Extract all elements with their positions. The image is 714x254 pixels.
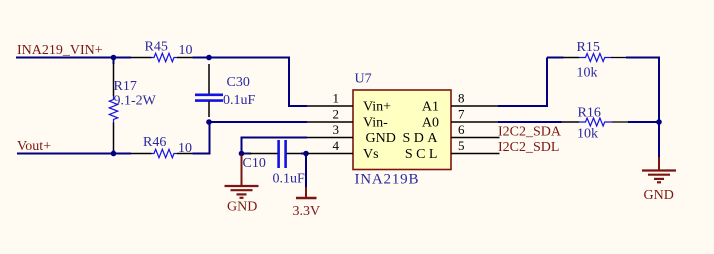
- capacitor C10: [250, 140, 302, 168]
- label C10: [243, 156, 266, 171]
- label GND (left): [227, 200, 257, 215]
- label GND (right): [644, 188, 674, 203]
- node J7 junction: [656, 119, 662, 125]
- svg-text:R17: R17: [114, 79, 137, 94]
- svg-text:R15: R15: [577, 40, 600, 55]
- wire J2 to pin1 corner: [209, 58, 307, 107]
- svg-text:Vin+: Vin+: [363, 100, 391, 115]
- wire J7 down to GND: [658, 122, 660, 157]
- net label Vout+: [17, 139, 51, 154]
- net label I2C2_SDA: [498, 125, 562, 140]
- svg-text:0.1uF: 0.1uF: [223, 93, 256, 108]
- net label INA219_VIN+: [17, 43, 103, 58]
- wire Vout+ horizontal: [17, 153, 131, 155]
- label 10 (R46 value): [178, 141, 192, 156]
- svg-text:0.1uF: 0.1uF: [273, 172, 306, 187]
- wire R45 to J2: [193, 57, 210, 59]
- pin name A0: [422, 116, 439, 131]
- pin 8 stub: [451, 105, 498, 107]
- label 0.1uF (C30 value): [223, 93, 256, 108]
- resistor R45: [131, 53, 193, 61]
- pin name GND: [366, 131, 396, 146]
- svg-text:C30: C30: [227, 75, 250, 90]
- label INA219B: [355, 172, 420, 188]
- wire pin8 to R15 riser: [498, 58, 547, 107]
- resistor R17: [109, 63, 117, 151]
- svg-text:U7: U7: [355, 72, 372, 87]
- svg-text:10: 10: [179, 43, 193, 58]
- wire J5 to C10: [242, 153, 252, 155]
- label 3.3V: [293, 204, 321, 219]
- wire J3 to pin2: [209, 121, 307, 123]
- svg-text:Vs: Vs: [363, 147, 379, 162]
- wire C10 to J6: [301, 153, 306, 155]
- svg-text:Vin-: Vin-: [363, 116, 388, 131]
- wire pin3 to GND corner: [242, 138, 308, 154]
- svg-text:I2C2_SDA: I2C2_SDA: [498, 125, 562, 140]
- node J6 junction (Vs/3.3V): [303, 151, 309, 157]
- svg-text:SDA: SDA: [402, 131, 441, 146]
- wire R17 down to J4: [113, 150, 115, 154]
- wire R46 to riser: [193, 122, 210, 154]
- pin 2 stub: [307, 121, 353, 123]
- wire R15 row left: [547, 57, 564, 59]
- svg-text:I2C2_SDL: I2C2_SDL: [498, 140, 559, 155]
- wire R16 to J7: [628, 121, 659, 123]
- svg-text:SCL: SCL: [405, 147, 441, 162]
- pin name Vin+: [363, 100, 391, 115]
- pin 4 stub: [307, 153, 353, 155]
- pin name Vin-: [363, 116, 388, 131]
- resistor R46: [131, 149, 193, 157]
- wire J6 down to 3.3V: [305, 154, 307, 188]
- power port GND (right): [642, 157, 676, 182]
- svg-text:9.1-2W: 9.1-2W: [114, 94, 157, 109]
- pin 7 stub: [451, 121, 498, 123]
- wire pin7 to R16: [498, 121, 562, 123]
- label R16: [578, 106, 601, 121]
- pin 1 number: [333, 91, 340, 106]
- node J1 junction: [111, 55, 117, 61]
- capacitor C30: [195, 64, 223, 117]
- op-amp U7 body (INA219B): [353, 90, 451, 170]
- svg-text:1: 1: [333, 91, 340, 106]
- label 10 (R45 value): [179, 43, 193, 58]
- svg-text:GND: GND: [366, 131, 396, 146]
- svg-text:8: 8: [458, 91, 465, 106]
- pin 6 number: [458, 122, 465, 137]
- svg-text:A0: A0: [422, 116, 439, 131]
- svg-text:C10: C10: [243, 156, 266, 171]
- pin 6 stub: [451, 137, 500, 139]
- pin 1 stub: [307, 105, 353, 107]
- net label I2C2_SDL: [498, 140, 559, 155]
- label 10k (R16 value): [577, 127, 598, 142]
- svg-text:INA219B: INA219B: [355, 172, 420, 188]
- svg-text:INA219_VIN+: INA219_VIN+: [17, 43, 103, 58]
- pin name Vs: [363, 147, 379, 162]
- svg-text:5: 5: [458, 138, 465, 153]
- wire R15 to right riser: [626, 58, 659, 123]
- label 10k (R15 value): [577, 66, 598, 81]
- svg-text:4: 4: [333, 138, 340, 153]
- svg-text:R16: R16: [578, 106, 601, 121]
- pin name SDA: [402, 131, 441, 146]
- label R15: [577, 40, 600, 55]
- svg-text:R46: R46: [143, 135, 166, 150]
- wire VIN+ horizontal top-left: [16, 57, 131, 59]
- svg-text:10: 10: [178, 141, 192, 156]
- svg-text:2: 2: [333, 107, 340, 122]
- power port 3.3V: [296, 187, 317, 198]
- resistor R16: [562, 118, 629, 126]
- svg-text:3: 3: [333, 122, 340, 137]
- pin 8 number: [458, 91, 465, 106]
- pin name SCL: [405, 147, 441, 162]
- svg-text:R45: R45: [145, 40, 168, 55]
- label C30: [227, 75, 250, 90]
- svg-text:10k: 10k: [577, 66, 598, 81]
- node J4 junction: [111, 151, 117, 157]
- node J5 junction (C10/GND): [239, 151, 245, 157]
- pin name A1: [422, 100, 439, 115]
- pin 3 number: [333, 122, 340, 137]
- wire J1 down to R17: [113, 58, 115, 65]
- label U7: [355, 72, 372, 87]
- label R17: [114, 79, 137, 94]
- resistor R15: [564, 54, 627, 62]
- svg-text:10k: 10k: [577, 127, 598, 142]
- svg-text:GND: GND: [227, 200, 257, 215]
- pin 5 number: [458, 138, 465, 153]
- pin 5 stub: [451, 153, 500, 155]
- svg-text:A1: A1: [422, 100, 439, 115]
- label R46: [143, 135, 166, 150]
- node J3 junction: [206, 119, 212, 125]
- label 0.1uF (C10 value): [273, 172, 306, 187]
- node J2 junction: [206, 55, 212, 61]
- svg-text:7: 7: [458, 107, 465, 122]
- pin 7 number: [458, 107, 465, 122]
- pin 4 number: [333, 138, 340, 153]
- label 9.1-2W (R17 value): [114, 94, 157, 109]
- power port GND (left): [225, 155, 259, 198]
- svg-text:3.3V: 3.3V: [293, 204, 321, 219]
- svg-text:GND: GND: [644, 188, 674, 203]
- svg-text:6: 6: [458, 122, 465, 137]
- svg-text:Vout+: Vout+: [17, 139, 51, 154]
- label R45: [145, 40, 168, 55]
- pin 2 number: [333, 107, 340, 122]
- pin 3 stub: [307, 137, 353, 139]
